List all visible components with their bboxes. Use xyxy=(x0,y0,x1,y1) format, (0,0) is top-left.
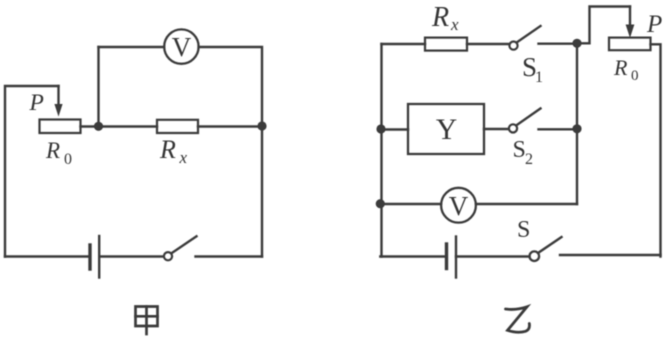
wire: V row right to centre rail xyxy=(476,203,577,205)
potentiometer R0 (right) xyxy=(609,38,651,51)
node (left rail, Y row) xyxy=(376,124,385,133)
wire: voltmeter to top-right corner and down xyxy=(199,47,262,121)
wire: top row to Rx xyxy=(382,43,426,45)
wire: Rx to switch S1 xyxy=(467,43,509,45)
wire: node up to voltmeter top wire xyxy=(97,47,99,126)
svg-text:0: 0 xyxy=(64,151,72,168)
switch S pivot circle xyxy=(530,251,540,261)
wire: Rx to right node xyxy=(198,125,262,127)
svg-text:R: R xyxy=(431,2,449,33)
arrowhead of slider P (points down onto R0) xyxy=(55,105,62,116)
battery cell (right): long plate xyxy=(455,237,457,278)
node (junction dot, left-mid) xyxy=(94,122,103,131)
voltmeter V2 circle xyxy=(441,188,476,223)
wire: right vertical down to bottom xyxy=(261,126,263,257)
switch S2 pivot circle xyxy=(509,124,517,132)
svg-text:Y: Y xyxy=(436,114,457,146)
wire: after S2 to centre rail node xyxy=(539,128,578,130)
svg-text:2: 2 xyxy=(525,151,533,168)
svg-text:V: V xyxy=(449,191,469,221)
wire: after S to bottom-right corner xyxy=(560,254,661,256)
wire: centre rail down xyxy=(576,43,578,204)
resistor Rx (right circuit) xyxy=(425,38,467,51)
arrowhead of slider P (right, points down onto R0) xyxy=(626,25,633,36)
wire: R0 right terminal to far-right rail xyxy=(651,44,661,256)
wire: R0 right terminal to node xyxy=(81,125,99,127)
svg-text:P: P xyxy=(646,11,662,38)
svg-text:R: R xyxy=(613,55,628,80)
wire: bottom left to battery xyxy=(5,255,90,257)
wire: slider stem xyxy=(57,86,59,106)
wire: Y box to switch S2 xyxy=(484,128,509,130)
svg-text:P: P xyxy=(29,90,44,116)
resistor Rx (left circuit) xyxy=(157,120,198,133)
switch (left circuit): pivot circle xyxy=(164,252,172,260)
wire: middle row from node to Rx xyxy=(103,125,157,127)
battery cell (right): short plate xyxy=(445,244,448,269)
wire: jog from node up over to slider arrow of R0 xyxy=(577,7,630,44)
wire: battery to switch S xyxy=(456,255,530,257)
svg-text:1: 1 xyxy=(535,69,543,86)
wire: V row left xyxy=(380,203,441,205)
wire: to Y box xyxy=(381,128,408,130)
wire: after switch to bottom-right corner xyxy=(196,255,263,257)
svg-text:S: S xyxy=(517,217,530,243)
voltmeter V1 circle xyxy=(164,29,198,63)
wire: battery to switch xyxy=(99,255,163,257)
resistor R0 (left) xyxy=(40,120,81,134)
component Y box xyxy=(408,104,484,154)
wire: bottom row left to battery xyxy=(380,255,446,257)
node (centre rail, S2 row) xyxy=(572,124,581,133)
node (top of centre rail) xyxy=(572,39,581,48)
switch S lever xyxy=(538,237,561,253)
battery cell: long plate xyxy=(98,236,100,278)
slider stem (right R0) xyxy=(629,7,631,27)
svg-text:V: V xyxy=(172,32,192,62)
svg-text:R: R xyxy=(45,138,60,163)
node (left rail, V row) xyxy=(376,199,385,208)
switch S1 pivot circle xyxy=(509,42,517,50)
switch S2 lever xyxy=(517,108,541,125)
node (junction dot, right) xyxy=(257,121,266,130)
wire: left outer vertical + top-left horizontal to slider xyxy=(5,86,59,257)
switch lever xyxy=(172,236,197,253)
svg-text:x: x xyxy=(179,148,188,167)
battery cell: short plate xyxy=(88,245,91,269)
label jia (甲) drawn as strokes xyxy=(136,307,158,335)
svg-text:x: x xyxy=(450,15,459,34)
wire: left rail of right circuit xyxy=(380,44,382,257)
svg-text:R: R xyxy=(159,135,176,164)
svg-text:0: 0 xyxy=(631,68,639,84)
svg-text:S: S xyxy=(513,137,526,163)
wire: top wire to voltmeter xyxy=(99,46,165,48)
switch S1 lever xyxy=(517,26,541,42)
label yi (乙) drawn as strokes xyxy=(506,307,530,332)
wire: after S1 to node xyxy=(539,43,578,45)
